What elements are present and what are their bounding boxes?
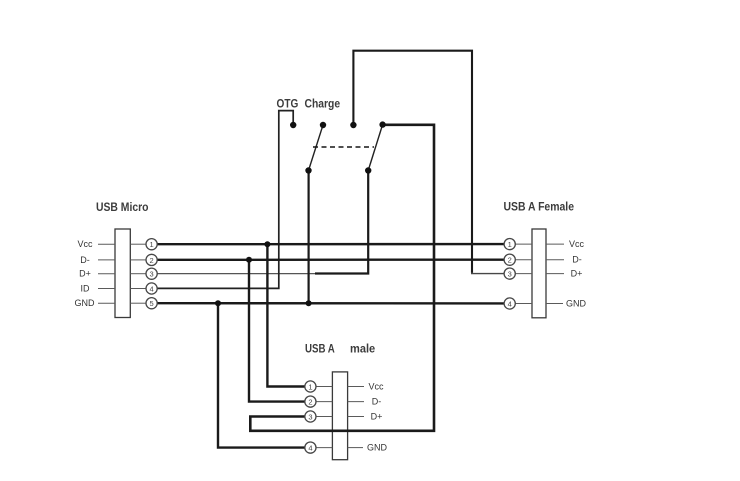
svg-text:3: 3 bbox=[150, 270, 154, 279]
svg-text:D+: D+ bbox=[371, 412, 383, 422]
svg-text:5: 5 bbox=[150, 299, 154, 308]
svg-text:3: 3 bbox=[508, 270, 512, 279]
svg-text:1: 1 bbox=[308, 382, 312, 391]
svg-text:OTG: OTG bbox=[277, 97, 299, 111]
svg-text:USB Micro: USB Micro bbox=[96, 200, 149, 214]
svg-text:ID: ID bbox=[81, 284, 91, 294]
svg-text:D-: D- bbox=[80, 255, 90, 265]
svg-text:4: 4 bbox=[308, 444, 312, 453]
svg-text:GND: GND bbox=[367, 443, 388, 453]
svg-text:D-: D- bbox=[372, 397, 382, 407]
svg-text:GND: GND bbox=[566, 299, 587, 309]
svg-text:1: 1 bbox=[150, 240, 154, 249]
svg-text:male: male bbox=[350, 342, 375, 356]
svg-text:D+: D+ bbox=[571, 269, 583, 279]
svg-text:2: 2 bbox=[150, 256, 154, 265]
svg-text:USB A Female: USB A Female bbox=[504, 200, 575, 214]
svg-text:4: 4 bbox=[150, 284, 154, 293]
svg-text:USB A: USB A bbox=[305, 342, 335, 356]
svg-text:4: 4 bbox=[508, 299, 512, 308]
svg-text:D-: D- bbox=[572, 255, 582, 265]
svg-text:2: 2 bbox=[308, 398, 312, 407]
svg-text:GND: GND bbox=[75, 298, 96, 308]
svg-text:D+: D+ bbox=[79, 269, 91, 279]
svg-text:3: 3 bbox=[308, 412, 312, 421]
svg-text:Vcc: Vcc bbox=[77, 239, 93, 249]
svg-text:2: 2 bbox=[508, 256, 512, 265]
svg-text:Vcc: Vcc bbox=[569, 239, 585, 249]
svg-text:1: 1 bbox=[508, 240, 512, 249]
svg-text:Charge: Charge bbox=[305, 97, 341, 111]
svg-text:Vcc: Vcc bbox=[368, 382, 384, 392]
